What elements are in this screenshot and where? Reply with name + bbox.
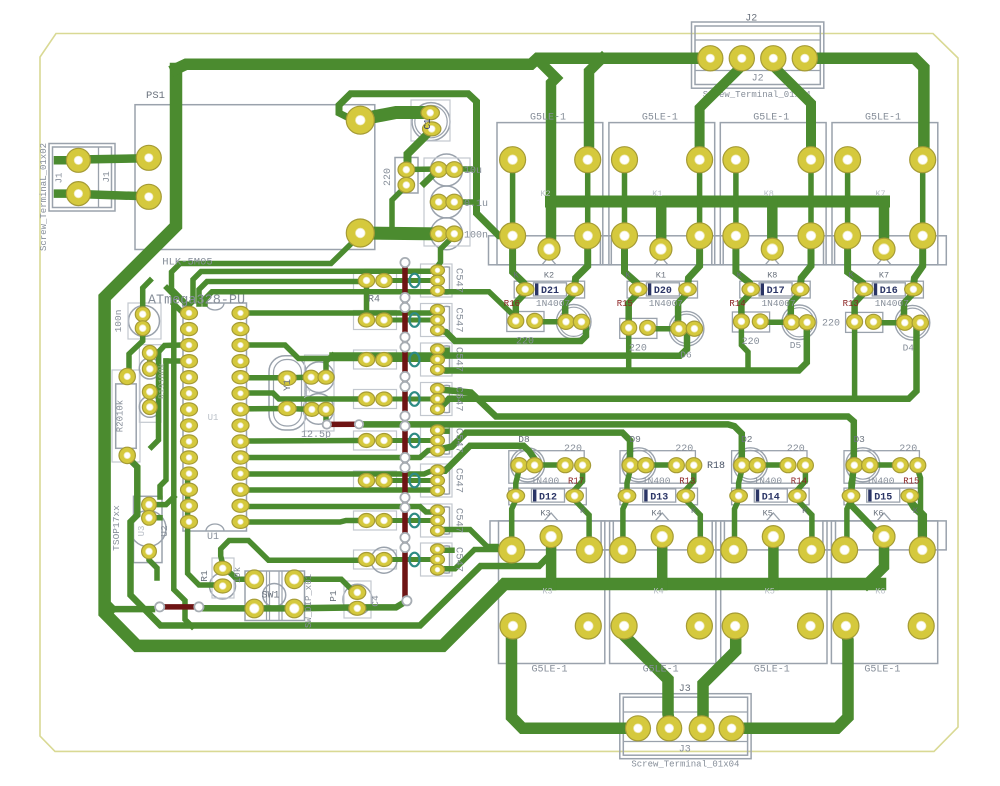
- wire U1 to Q7: [248, 507, 436, 513]
- resistor R10 outline: [354, 511, 397, 530]
- relay K6 pad bot-right: [908, 613, 934, 639]
- via: [155, 602, 164, 611]
- svg-text:G5LE-1: G5LE-1: [753, 113, 789, 124]
- via: [400, 421, 409, 430]
- relay K7 pad top-left: [835, 147, 861, 173]
- wire 0.1u link: [454, 199, 477, 205]
- wire Q2 to K2 group: [438, 329, 586, 342]
- wire R19b link: [147, 392, 153, 407]
- via: [400, 332, 409, 341]
- transistor Q6 pad 2: [431, 475, 445, 486]
- svg-text:G5LE-1: G5LE-1: [530, 113, 566, 124]
- wire Q1 row left: [205, 292, 434, 304]
- IC U1 outline: [183, 303, 247, 531]
- relay K7 pad bot-right: [910, 223, 936, 249]
- switch SW1 pad: [245, 570, 264, 589]
- capacitor C6 outline: [431, 186, 463, 218]
- wire relay coil bus: [551, 196, 884, 208]
- wire U1 to Q5: [248, 450, 436, 458]
- svg-text:10k: 10k: [233, 567, 243, 583]
- svg-text:R14: R14: [729, 299, 745, 309]
- wire J3-4 to K6: [732, 632, 848, 728]
- svg-text:D6: D6: [680, 350, 692, 361]
- relay K2 pad bot-right: [575, 223, 601, 249]
- relay K5 pad coil: [762, 526, 784, 548]
- wire PS1 out+: [362, 113, 429, 120]
- wire R5 to Q2 base: [386, 318, 432, 323]
- svg-text:K6: K6: [875, 587, 885, 597]
- svg-text:R13: R13: [679, 477, 695, 487]
- wire U1 left b: [166, 358, 183, 364]
- transistor Q3 outline: [421, 343, 453, 376]
- svg-text:Screw_TerminaL_01x02: Screw_TerminaL_01x02: [39, 143, 49, 251]
- svg-text:220: 220: [742, 337, 760, 348]
- via: [400, 453, 409, 462]
- connector J1 pad 1: [66, 148, 90, 172]
- transistor Q3 pad 3: [431, 364, 445, 375]
- diode group under K2 silk: [514, 281, 584, 298]
- wire R220 to diode: [576, 470, 583, 489]
- wire K8 coil pad: [767, 202, 778, 247]
- relay K6 outline: [831, 521, 937, 664]
- svg-text:U2: U2: [159, 525, 170, 537]
- wire relay left pads: [845, 160, 851, 236]
- svg-text:R16: R16: [504, 299, 520, 309]
- wire diode to R220: [855, 293, 864, 322]
- wire diode to cap: [791, 293, 800, 322]
- relay K6 pad coil: [873, 526, 895, 548]
- svg-text:R1: R1: [199, 570, 210, 582]
- wire Q6 to K3 group: [438, 446, 535, 471]
- wire left col down: [160, 361, 166, 497]
- wire diode to relay K6: [910, 502, 920, 514]
- svg-text:R4: R4: [368, 295, 380, 306]
- transistor Q5 pad 3: [431, 445, 445, 456]
- svg-text:P1: P1: [328, 590, 339, 602]
- capacitor C8 outline: [129, 306, 160, 337]
- connector J2 pad 2: [729, 46, 754, 71]
- svg-text:C547: C547: [453, 508, 465, 533]
- wire U2 stub: [149, 515, 160, 521]
- svg-text:10u: 10u: [464, 166, 482, 177]
- wire R220 stub K7: [852, 327, 858, 399]
- wire to R4: [199, 282, 357, 305]
- IC U1 pad 15: [232, 515, 249, 528]
- svg-text:K: K: [737, 271, 743, 281]
- wire K4 to J3-2: [625, 630, 670, 722]
- cap pad a g0: [558, 314, 574, 329]
- svg-text:J2: J2: [752, 74, 764, 85]
- wire R220 to diode: [687, 470, 694, 489]
- relay K7 outline: [832, 123, 938, 265]
- diode pad anode g1: [629, 283, 647, 296]
- svg-text:D13: D13: [650, 493, 668, 504]
- via: [400, 293, 409, 302]
- svg-text:K6: K6: [873, 509, 883, 519]
- wire J2-2 to K1: [700, 58, 742, 159]
- resistor R20 pad b: [119, 447, 135, 463]
- wire C8 to R20: [129, 333, 143, 377]
- IC U1 pad 1: [181, 306, 198, 319]
- svg-text:D15: D15: [874, 493, 892, 504]
- resistor 220 pad a bg0: [557, 458, 573, 473]
- connector J1 outline: [49, 144, 115, 212]
- wire relay to diode cathode: [800, 240, 811, 288]
- wire Q3 to K8 group: [438, 330, 807, 371]
- svg-text:220: 220: [383, 168, 394, 186]
- wire cap to diode: [516, 470, 519, 491]
- svg-text:Y1: Y1: [303, 388, 313, 399]
- transistor Q4 pad 2: [431, 394, 445, 405]
- relay K2 pad top-left: [500, 147, 526, 173]
- svg-text:K: K: [625, 271, 631, 281]
- connector J3 pad 3: [689, 716, 714, 741]
- svg-text:J3: J3: [679, 684, 691, 695]
- svg-text:K3: K3: [540, 509, 550, 519]
- wire K2 coil pad: [545, 202, 556, 247]
- wire SW1 to C4 top: [294, 579, 356, 592]
- capacitor C2 pad a: [303, 370, 319, 384]
- resistor R1 pad b: [214, 579, 232, 593]
- transistor Q1 pad 1: [431, 265, 445, 276]
- wire cap to R220: [757, 462, 788, 468]
- diode pad cathode g1: [679, 283, 697, 296]
- svg-text:PS1: PS1: [146, 90, 165, 102]
- svg-text:1N4007: 1N4007: [649, 298, 683, 309]
- resistor R3 pad b: [398, 177, 415, 192]
- wire Q5 stub: [438, 428, 447, 434]
- svg-text:K8: K8: [764, 189, 774, 199]
- transistor Q7 pad 1: [431, 505, 445, 516]
- svg-text:K1: K1: [652, 189, 662, 199]
- diode pad cathode g3: [905, 283, 923, 296]
- svg-text:D16: D16: [880, 286, 898, 297]
- diode pad cathode g2: [791, 283, 809, 296]
- PS1 pad AC-L: [136, 145, 161, 170]
- relay K4 pad bot-right: [686, 613, 712, 639]
- cap pad b g2: [799, 315, 815, 330]
- wire K6 coil stub: [867, 540, 884, 584]
- diode pad anode bg0: [507, 489, 525, 502]
- relay K4 pad bot-left: [611, 613, 637, 639]
- wire 100n to Q1: [438, 237, 453, 267]
- wire U1 to Q1 top: [189, 271, 436, 311]
- svg-text:0.1u: 0.1u: [464, 199, 488, 210]
- svg-text:HLK-5M05: HLK-5M05: [162, 257, 212, 269]
- resistor R9 pad a: [358, 474, 374, 488]
- svg-text:R14: R14: [791, 477, 807, 487]
- resistor 220 pad b bg2: [797, 458, 813, 473]
- transistor Q2 pad 1: [431, 304, 445, 315]
- wire corner: [105, 600, 114, 609]
- wire R7 to Q4 base: [386, 397, 432, 402]
- svg-text:C547: C547: [453, 428, 465, 453]
- capacitor C2 pad b: [318, 370, 334, 384]
- resistor R11 pad a: [358, 553, 374, 567]
- svg-text:D14: D14: [762, 493, 780, 504]
- resistor R10 pad a: [358, 514, 374, 528]
- relay K8 pad bot-right: [798, 223, 824, 249]
- wire inner ground: [127, 457, 551, 626]
- wire relay to diode anode: [513, 240, 526, 288]
- via: [194, 602, 203, 611]
- wire relay to diode anode: [625, 240, 639, 288]
- switch SW1 outline: [245, 571, 305, 621]
- svg-text:SW1: SW1: [261, 591, 279, 602]
- resistor R4 outline: [354, 271, 397, 290]
- wire R220 to cap: [760, 320, 791, 326]
- connector J2 pad 1: [698, 46, 723, 71]
- cap pad b g1: [686, 321, 702, 336]
- via: [400, 342, 409, 351]
- svg-text:C4: C4: [370, 595, 381, 607]
- wire relay to diode cathode: [575, 240, 588, 288]
- svg-text:12.5p: 12.5p: [301, 430, 331, 441]
- resistor R11 pad b: [376, 553, 392, 567]
- resistor R7 outline: [354, 390, 397, 409]
- transistor Q3 pad 1: [431, 344, 445, 355]
- svg-text:C547: C547: [453, 347, 465, 372]
- via: [400, 372, 409, 381]
- via: [402, 596, 411, 605]
- wire: [403, 184, 409, 186]
- connector J3 pad 4: [719, 716, 744, 741]
- via near Y1: [323, 420, 331, 428]
- wire relay right pads: [585, 160, 591, 236]
- wire C2 up: [326, 356, 333, 378]
- IC U2 pad: [142, 544, 157, 559]
- node Q5 base ring: [410, 434, 420, 448]
- svg-text:D12: D12: [539, 493, 557, 504]
- wire Q1 to R220 K2: [444, 292, 516, 318]
- svg-text:220: 220: [787, 444, 805, 455]
- wire Q3 stub: [438, 347, 447, 353]
- wire diode to relay L: [735, 500, 739, 546]
- svg-text:G5LE-1: G5LE-1: [531, 665, 567, 676]
- relay K2 outline: [497, 123, 603, 265]
- svg-text:1N400: 1N400: [642, 476, 671, 487]
- wire R3 to PS1 out: [392, 186, 406, 227]
- relay K2 pad bot-left: [500, 223, 526, 249]
- wire U1 to R8: [248, 438, 357, 444]
- IC U1 pad 4: [181, 355, 198, 368]
- wire U1 to R7: [248, 393, 357, 399]
- connector J2 pad 3: [761, 46, 786, 71]
- wire Q5 to K4 group: [438, 433, 630, 459]
- wire to via left: [114, 606, 153, 613]
- resistor R19 pad: [142, 345, 157, 360]
- via: [400, 503, 409, 512]
- via: [400, 258, 409, 267]
- wire C4 to via: [357, 601, 407, 608]
- svg-text:D9: D9: [629, 434, 641, 445]
- IC U1 pad 3: [181, 339, 198, 352]
- wire GND outer loop: [105, 69, 880, 646]
- wire cap to diode: [739, 470, 742, 491]
- relay K3 outline: [499, 521, 605, 664]
- wire U1 to R10: [248, 521, 357, 523]
- cap column pad b: [446, 162, 463, 178]
- resistor R4 pad b: [376, 274, 392, 288]
- IC U1 pad 26: [232, 339, 249, 352]
- capacitor C3 pad b: [318, 402, 334, 416]
- IC U1 pad 27: [232, 323, 249, 336]
- resistor R8 pad a: [358, 434, 374, 448]
- cap pad b bg0: [526, 458, 542, 473]
- wire J1 to PS1 b: [78, 194, 148, 196]
- wire cap to diode: [851, 470, 854, 491]
- wire diode to relay R: [575, 500, 590, 546]
- diode group under K8 silk: [740, 281, 810, 298]
- relay K4 pad top-left: [610, 537, 636, 563]
- resistor 220 pad a g2: [733, 314, 749, 329]
- svg-text:TSOP17xx: TSOP17xx: [111, 505, 122, 551]
- wire Q7 to K3: [440, 530, 508, 550]
- svg-text:R17: R17: [568, 477, 584, 487]
- IC U1 pad 7: [181, 403, 198, 416]
- svg-text:R2010k: R2010k: [116, 400, 126, 432]
- wire K5 to J3-3: [703, 630, 736, 722]
- wire relay left pads: [622, 160, 628, 236]
- wire R1 top to R11: [221, 541, 357, 565]
- wire SW1 to C4: [294, 604, 356, 611]
- wire SW1 to R1: [226, 569, 254, 579]
- resistor R1 outline: [210, 573, 236, 599]
- wire diode to relay L: [512, 500, 516, 546]
- svg-text:ATmega328-PU: ATmega328-PU: [148, 294, 245, 309]
- diode pad cathode g0: [566, 283, 584, 296]
- wire relay right pads: [808, 160, 814, 236]
- svg-text:1N4007: 1N4007: [761, 298, 795, 309]
- relay K1 pad top-right: [687, 147, 713, 173]
- transistor Q6 pad 3: [431, 485, 445, 496]
- relay K8 pad bot-left: [723, 223, 749, 249]
- svg-text:1N400: 1N400: [866, 476, 895, 487]
- resistor R11 outline: [354, 550, 397, 569]
- svg-text:C547: C547: [453, 547, 465, 572]
- wire diode to relay R: [686, 500, 701, 546]
- relay K5 pad top-right: [799, 537, 825, 563]
- svg-text:R15: R15: [617, 299, 633, 309]
- via: [400, 382, 409, 391]
- svg-text:C547: C547: [453, 307, 465, 332]
- svg-text:Y1: Y1: [283, 379, 294, 391]
- resistor R5 pad b: [376, 313, 392, 327]
- svg-text:1N400: 1N400: [754, 476, 783, 487]
- wire U2 down: [149, 551, 157, 578]
- wire R9 to Q6 base: [386, 478, 432, 483]
- svg-text:K: K: [513, 271, 519, 281]
- resistor R19 outline: [139, 345, 161, 423]
- relay K3 pad bot-right: [575, 613, 601, 639]
- relay K4 pad coil: [651, 526, 673, 548]
- node Q3 base ring: [410, 353, 420, 367]
- IC U1 pad 8: [181, 419, 198, 432]
- resistor 220 pad b bg3: [910, 458, 926, 473]
- relay K1 pad top-left: [612, 147, 638, 173]
- resistor R6 pad a: [358, 353, 374, 367]
- svg-text:D3: D3: [853, 434, 865, 445]
- wire J2-3 to K8: [773, 58, 811, 159]
- diode pad anode bg3: [842, 489, 860, 502]
- relay K5 pad bot-left: [722, 613, 748, 639]
- IC U2 pad: [142, 497, 157, 512]
- IC U1 pad 23: [232, 387, 249, 400]
- diode pad anode bg2: [730, 489, 748, 502]
- resistor R19 pad: [142, 400, 157, 415]
- resistor R19 pad: [142, 362, 157, 377]
- wire: [174, 304, 186, 313]
- svg-text:220: 220: [629, 343, 647, 354]
- cap pad a g3: [897, 315, 913, 330]
- transistor Q7 outline: [421, 504, 453, 537]
- capacitor C2 outline: [304, 362, 335, 393]
- wire diode to relay L: [623, 500, 627, 546]
- relay K8 pad top-right: [798, 147, 824, 173]
- relay K6 pad top-left: [832, 537, 858, 563]
- wire PS1 out-: [362, 227, 432, 241]
- relay K3 pad coil: [540, 526, 562, 548]
- svg-text:K: K: [691, 506, 697, 516]
- IC U1 pad 18: [232, 467, 249, 480]
- node Q7 base ring: [410, 514, 420, 528]
- IC U1 pad 19: [232, 451, 249, 464]
- relay K3 pad top-right: [576, 537, 602, 563]
- relay K6 pad top-right: [909, 537, 935, 563]
- resistor 220 pad b bg0: [575, 458, 591, 473]
- wire R220 to cap: [648, 326, 679, 332]
- resistor R1 pad a: [214, 561, 232, 575]
- wire 10u link: [454, 166, 477, 172]
- wire diode to cap: [678, 293, 687, 329]
- wire cap to R220: [646, 462, 677, 468]
- transistor Q4 pad 1: [431, 383, 445, 394]
- resistor R6 outline: [354, 350, 397, 369]
- cap pad a bg1: [622, 458, 638, 473]
- wire R6 to Q3 base: [386, 357, 432, 362]
- diode pad anode g3: [855, 283, 873, 296]
- svg-text:SW_DIP_x01: SW_DIP_x01: [304, 574, 314, 628]
- resistor R20 outline: [116, 384, 137, 448]
- capacitor C1 outline: [412, 103, 450, 141]
- connector J3 pad 1: [626, 716, 651, 741]
- wire PS1 inner loop: [339, 94, 513, 236]
- wire relay to diode cathode: [913, 240, 922, 288]
- capacitor C3 pad a: [304, 402, 320, 416]
- wire diode to R220: [516, 293, 525, 321]
- IC U1 pad 2: [181, 323, 198, 336]
- wire cap to R220: [535, 462, 566, 468]
- svg-text:D21: D21: [541, 286, 559, 297]
- via: [400, 493, 409, 502]
- wire K3 coil stub: [546, 540, 557, 585]
- wire 10u diag: [424, 170, 438, 184]
- wire front copper vertical: [405, 262, 407, 601]
- resistor 220 pad a g1: [621, 320, 637, 335]
- cap pad a g2: [783, 315, 799, 330]
- wire Q8 top: [440, 547, 452, 553]
- wire R19a link: [147, 353, 153, 369]
- connector J3 outline: [620, 694, 751, 759]
- resistor R8 outline: [354, 431, 397, 450]
- crystal Y1 pad 1: [278, 371, 296, 385]
- connector J2 pad 4: [792, 46, 817, 71]
- capacitor C5 outline: [431, 154, 463, 186]
- IC U1 pad 21: [232, 419, 249, 432]
- wire R10 to Q7 base: [386, 518, 432, 523]
- cap pad b bg3: [862, 458, 878, 473]
- resistor R6 pad b: [376, 353, 392, 367]
